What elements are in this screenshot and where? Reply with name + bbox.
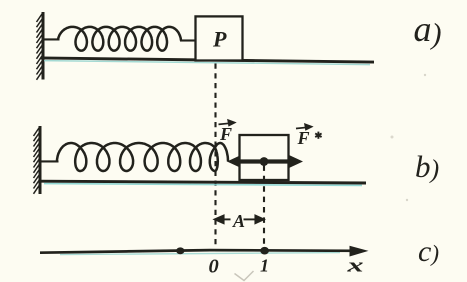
x axis cyan scan fringe [60, 253, 340, 255]
wall a hatching [37, 13, 44, 80]
ground line a [41, 58, 375, 62]
svg-text:1: 1 [260, 255, 269, 275]
dashed line x=0 [214, 64, 216, 249]
point left of origin [176, 247, 184, 254]
wire: spring a to block P [180, 39, 196, 41]
wire: wall a to spring a [43, 38, 60, 40]
wall b hatching [34, 127, 41, 194]
spring a [58, 27, 181, 51]
ground line a cyan scan fringe [44, 61, 370, 65]
svg-text:F: F [219, 124, 232, 144]
ground line b cyan scan fringe [44, 184, 362, 186]
vector arrow over F* [296, 124, 312, 129]
x axis arrowhead [350, 246, 369, 257]
svg-text:b): b) [415, 149, 439, 184]
asterisk of F* [315, 132, 321, 139]
dashed line x=1 [263, 165, 265, 248]
wire: wall b to spring b [40, 160, 59, 162]
scan artifact check mark [235, 271, 254, 281]
point at 1 [260, 247, 269, 255]
svg-text:A: A [232, 211, 245, 231]
svg-text:x: x [346, 255, 365, 276]
wall a [42, 12, 45, 80]
thick double arrow through block [227, 155, 303, 168]
scan artifact faint dots [424, 74, 426, 76]
spring b [57, 143, 228, 171]
ground line b [39, 181, 366, 183]
block P [196, 16, 243, 60]
wall b [39, 126, 42, 194]
vector arrow over F [219, 120, 235, 125]
svg-text:0: 0 [209, 256, 219, 278]
svg-text:P: P [212, 27, 227, 52]
amplitude dimension arrows [215, 216, 264, 224]
block b [240, 135, 289, 180]
svg-text:F: F [297, 128, 310, 148]
x axis [40, 250, 353, 253]
